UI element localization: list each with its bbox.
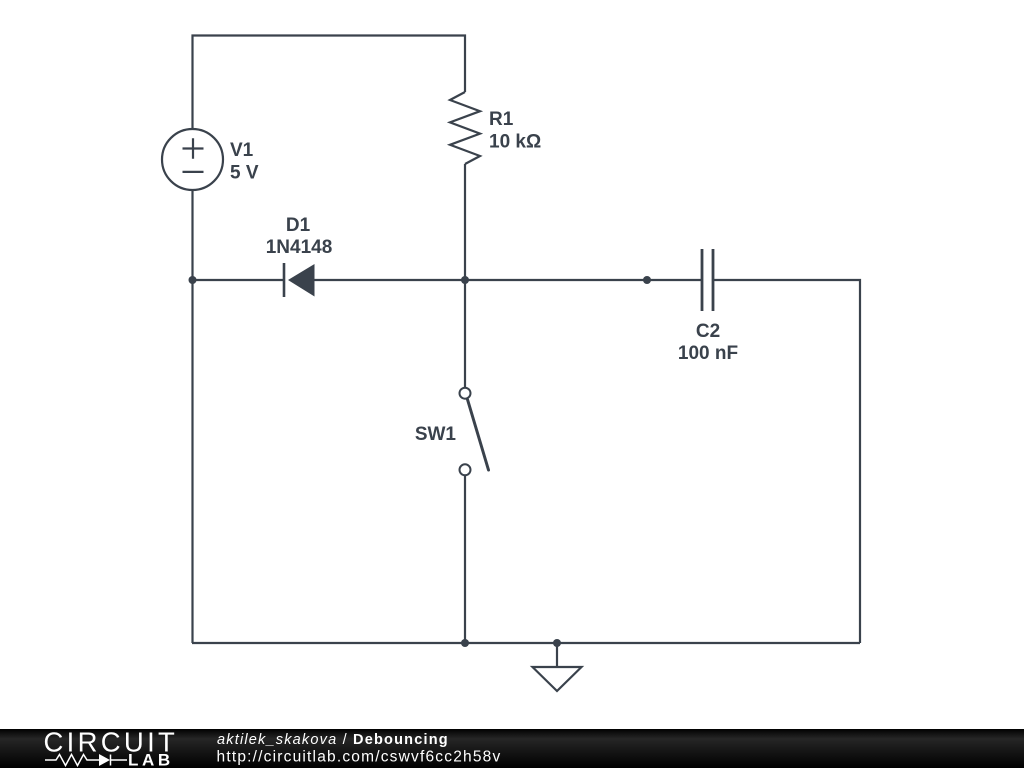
svg-text:aktilek_skakova / Debouncing: aktilek_skakova / Debouncing [217, 732, 449, 748]
svg-text:C2: C2 [696, 321, 720, 342]
wire: middle horizontal left of D1 [193, 279, 285, 281]
svg-text:R1: R1 [489, 109, 514, 130]
resistor R1 [450, 92, 480, 164]
junction dots [189, 276, 652, 647]
node: ground [553, 639, 561, 647]
svg-text:D1: D1 [286, 215, 311, 236]
capacitor C2 [702, 249, 713, 311]
voltage source V1 [162, 129, 223, 190]
diode D1 [284, 263, 315, 297]
wire: R1 bottom to middle node [464, 164, 466, 280]
svg-text:100 nF: 100 nF [678, 343, 738, 364]
svg-text:10 kΩ: 10 kΩ [489, 132, 541, 153]
ground [556, 643, 558, 667]
svg-text:5 V: 5 V [230, 163, 259, 184]
svg-text:1N4148: 1N4148 [266, 237, 333, 258]
svg-text:LAB: LAB [128, 751, 174, 768]
wire: middle horizontal D1 to C2 [314, 279, 702, 281]
wire top: V1 to R1 [193, 36, 466, 130]
node: R1/D1/SW1 [461, 276, 469, 284]
svg-text:http://circuitlab.com/cswvf6cc: http://circuitlab.com/cswvf6cc2h58v [217, 749, 502, 766]
wire bottom [192, 642, 860, 644]
node: V1/D1 [189, 276, 197, 284]
svg-text:V1: V1 [230, 140, 254, 161]
svg-text:SW1: SW1 [415, 424, 457, 445]
node: C2 left [643, 276, 651, 284]
wire: middle vertical to SW1 [464, 280, 466, 387]
wire: C2 to right corner, down to bottom [713, 280, 860, 643]
node: SW1 bottom [461, 639, 469, 647]
logo symbol: resistor + diode [45, 755, 127, 766]
wire left: V1 bottom to bottom-left corner [191, 190, 193, 643]
labels [230, 109, 738, 445]
wire: SW1 bottom to bottom wire [464, 476, 466, 643]
switch SW1 [460, 388, 489, 476]
